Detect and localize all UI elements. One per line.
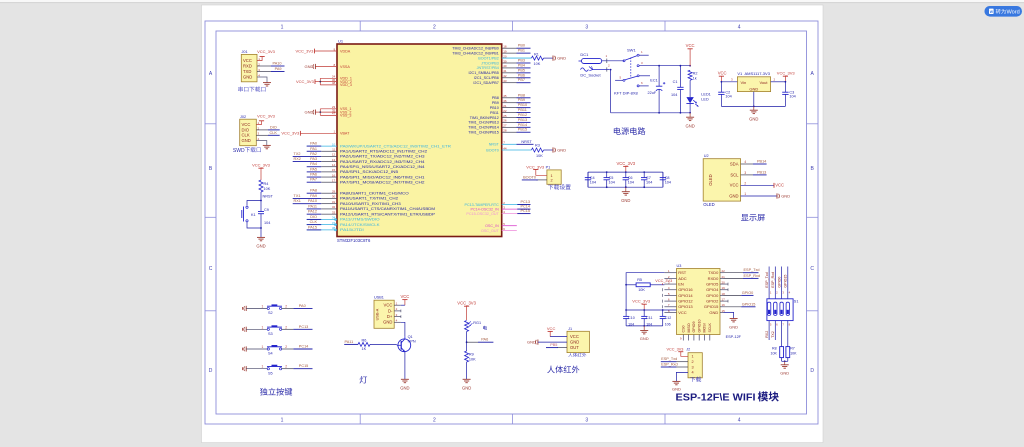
wire OLED SCL net PB13 — [741, 174, 753, 176]
svg-text:PC13: PC13 — [299, 325, 309, 329]
svg-text:PB14: PB14 — [757, 160, 766, 164]
svg-text:104: 104 — [590, 181, 596, 185]
capacitor C8 104 — [662, 172, 664, 178]
svg-text:J1: J1 — [568, 327, 572, 331]
switch link dashed — [630, 58, 632, 79]
cap ground rail — [626, 325, 663, 327]
svg-text:RXD0: RXD0 — [708, 276, 719, 281]
svg-text:PB10: PB10 — [518, 103, 527, 107]
push button S3 — [267, 328, 269, 330]
svg-text:PB3: PB3 — [518, 58, 525, 62]
svg-text:VDD_3: VDD_3 — [340, 83, 352, 87]
ground decoupling — [625, 186, 627, 188]
svg-text:ESP_Rxd: ESP_Rxd — [771, 272, 775, 288]
svg-text:PA7: PA7 — [310, 178, 317, 182]
svg-text:2: 2 — [285, 325, 287, 329]
label 人体红外 — [547, 366, 579, 374]
svg-text:GND: GND — [709, 310, 718, 315]
svg-text:D: D — [209, 368, 213, 374]
ground flag at button S3 — [245, 327, 247, 332]
label 灯 — [360, 376, 368, 384]
svg-text:10K: 10K — [790, 351, 797, 355]
svg-text:OLED: OLED — [708, 174, 713, 185]
svg-text:BOOT0: BOOT0 — [486, 148, 499, 152]
svg-text:STM32F103C8T6: STM32F103C8T6 — [337, 238, 371, 243]
svg-text:GPIO0: GPIO0 — [706, 293, 719, 298]
svg-text:TIM1_CH1N/PB13: TIM1_CH1N/PB13 — [468, 121, 499, 125]
svg-text:PB13: PB13 — [757, 170, 766, 174]
capacitor C6 104 — [625, 171, 627, 173]
svg-text:TX2: TX2 — [771, 331, 775, 338]
svg-text:2: 2 — [744, 181, 746, 185]
wire RG1 to node — [466, 332, 468, 343]
svg-text:GPIO16: GPIO16 — [678, 287, 693, 292]
switch SW1 pole B pins 4,5,6 — [623, 79, 625, 81]
capacitor C1 104 — [679, 66, 681, 88]
svg-text:VCC: VCC — [678, 310, 687, 315]
capacitor C4 104 — [587, 172, 589, 178]
capacitor C3 104 — [784, 82, 786, 92]
svg-text:R8: R8 — [772, 346, 777, 350]
wire R5 to EN with VCC_3V3 flag — [650, 284, 664, 286]
power flag VCC_3V3 at VDDA — [314, 49, 316, 54]
ground at ESP caps — [640, 330, 648, 332]
svg-text:C4: C4 — [590, 176, 595, 180]
cap rail to ESP VCC pin — [626, 309, 676, 311]
svg-text:U1: U1 — [338, 39, 344, 44]
svg-text:PA5: PA5 — [310, 167, 317, 171]
svg-text:GPIO15: GPIO15 — [784, 275, 788, 288]
svg-text:I2C1_SDA/PB7: I2C1_SDA/PB7 — [473, 81, 498, 85]
svg-text:C10: C10 — [628, 316, 635, 320]
svg-text:GND: GND — [570, 340, 579, 345]
svg-text:1: 1 — [281, 418, 284, 424]
svg-text:VCC_3V3: VCC_3V3 — [457, 301, 476, 306]
wire button to ground — [247, 222, 261, 228]
svg-text:Vout: Vout — [759, 80, 768, 85]
svg-text:PC15: PC15 — [521, 209, 531, 213]
wire ESP GPIO15 net — [724, 306, 742, 308]
svg-text:PB15: PB15 — [518, 128, 527, 132]
svg-text:GND: GND — [729, 324, 738, 329]
svg-text:2: 2 — [285, 304, 287, 308]
svg-text:VCC: VCC — [242, 122, 251, 127]
transistor Q1 NPN — [398, 339, 411, 352]
svg-text:VCC: VCC — [730, 183, 739, 188]
svg-text:3: 3 — [744, 171, 746, 175]
svg-text:C6: C6 — [628, 176, 633, 180]
svg-text:RX1: RX1 — [294, 199, 301, 203]
schematic border frame — [205, 21, 818, 424]
net PB5 wire at J1 OUT — [557, 347, 567, 349]
ground at S1 resistors — [781, 364, 789, 366]
svg-text:DIO: DIO — [242, 127, 250, 132]
svg-text:104: 104 — [725, 95, 731, 99]
resistor R5 10K — [636, 283, 650, 287]
svg-text:CLK: CLK — [270, 131, 278, 135]
svg-text:2: 2 — [433, 418, 436, 424]
wire USB GND to Q1 collector — [401, 322, 405, 336]
capacitor C11 104 — [643, 310, 645, 316]
svg-text:BOOT0: BOOT0 — [523, 175, 536, 179]
svg-text:3: 3 — [585, 418, 588, 424]
svg-text:GND: GND — [781, 194, 790, 199]
wire GND to button S5 — [246, 368, 267, 370]
svg-text:RG1: RG1 — [473, 321, 481, 325]
svg-text:ESP_Txd: ESP_Txd — [765, 272, 769, 287]
resistor R7 10K — [787, 321, 789, 347]
svg-text:PB9: PB9 — [492, 101, 499, 105]
svg-text:2: 2 — [692, 360, 694, 364]
capacitor C10 104 — [625, 310, 627, 316]
svg-text:PA9/USART1_TX/TIM1_CH2: PA9/USART1_TX/TIM1_CH2 — [340, 197, 398, 201]
svg-text:OLED: OLED — [703, 202, 714, 207]
svg-text:P1: P1 — [546, 166, 551, 170]
svg-text:PA1/USART2_RTS/ADC12_IN1/TIM2_: PA1/USART2_RTS/ADC12_IN1/TIM2_CH2 — [340, 150, 427, 154]
svg-text:4: 4 — [744, 160, 746, 164]
svg-text:OUT: OUT — [570, 345, 579, 350]
svg-text:PB8: PB8 — [518, 93, 525, 97]
svg-text:JNTRST/PB4: JNTRST/PB4 — [477, 66, 499, 70]
svg-text:104: 104 — [671, 93, 677, 97]
svg-text:PA9: PA9 — [310, 194, 317, 198]
svg-text:GND: GND — [780, 370, 789, 375]
wire to ground — [260, 227, 262, 229]
svg-text:4: 4 — [692, 371, 694, 375]
svg-text:GND: GND — [527, 340, 536, 345]
svg-text:NRST: NRST — [263, 195, 274, 199]
svg-text:AMS1117-3V3: AMS1117-3V3 — [745, 71, 771, 76]
svg-text:NRST: NRST — [489, 143, 500, 147]
svg-text:PC14: PC14 — [521, 205, 531, 209]
svg-text:PB11: PB11 — [518, 108, 527, 112]
svg-text:PB0: PB0 — [518, 44, 525, 48]
svg-text:C9: C9 — [264, 208, 269, 212]
svg-text:CLK: CLK — [310, 220, 318, 224]
no-connect stubs GPIO16 GPIO14 GPIO12 GPIO13 — [662, 288, 664, 291]
svg-text:1: 1 — [281, 25, 284, 31]
svg-text:PB13: PB13 — [518, 118, 527, 122]
svg-text:NPN: NPN — [408, 340, 416, 344]
wire switch pin3 to top rail — [639, 65, 690, 67]
ground reset circuit — [257, 236, 265, 238]
svg-text:10K: 10K — [264, 187, 271, 191]
svg-text:R7: R7 — [790, 346, 795, 350]
label 下载设置 — [548, 184, 571, 189]
svg-text:GND: GND — [749, 116, 758, 121]
svg-text:PC14-OSC32_IN: PC14-OSC32_IN — [471, 207, 500, 211]
svg-text:J01: J01 — [242, 50, 248, 54]
svg-text:VCC_3V3: VCC_3V3 — [667, 347, 684, 351]
svg-text:TX1: TX1 — [294, 194, 301, 198]
svg-text:104: 104 — [789, 95, 795, 99]
wire J02 GND to ground — [256, 141, 267, 146]
svg-text:GND: GND — [749, 87, 758, 92]
svg-text:GPIO4: GPIO4 — [706, 287, 719, 292]
svg-text:ESP_Txd: ESP_Txd — [661, 357, 677, 361]
svg-text:SWD: SWD — [233, 148, 245, 154]
ground flag at button S2 — [245, 306, 247, 311]
ground flag at R1 — [552, 56, 554, 61]
svg-text:DC_Socket: DC_Socket — [580, 73, 601, 78]
capacitor C12 106 — [662, 310, 664, 316]
svg-text:VCC: VCC — [570, 334, 579, 339]
svg-text:104: 104 — [628, 181, 634, 185]
ground at J2 — [672, 380, 680, 382]
svg-text:D-: D- — [388, 308, 393, 313]
resistor R9 10K — [466, 342, 468, 351]
top rail junctions — [658, 65, 660, 67]
svg-text:R5: R5 — [637, 278, 642, 282]
svg-text:VCC_3V3: VCC_3V3 — [632, 299, 651, 304]
svg-text:106: 106 — [665, 322, 671, 326]
wire ESP GND to ground — [724, 312, 734, 318]
svg-text:S3: S3 — [268, 332, 273, 336]
regulator ground rail — [721, 105, 785, 107]
resistor R2 1k — [688, 70, 692, 80]
svg-text:PA0/WKUP/USART2_CTS/ADC12_IN0/: PA0/WKUP/USART2_CTS/ADC12_IN0/TIM2_CH1_E… — [340, 144, 451, 148]
ground at photoresistor — [463, 378, 471, 380]
node junction reset — [260, 200, 262, 202]
svg-text:PB6: PB6 — [518, 73, 525, 77]
svg-text:GND: GND — [305, 64, 314, 69]
svg-text:GND: GND — [557, 56, 566, 61]
svg-text:GPIO0: GPIO0 — [778, 277, 782, 288]
svg-text:PC13: PC13 — [521, 200, 531, 204]
svg-text:VCC_3V3: VCC_3V3 — [257, 113, 276, 118]
svg-text:GND: GND — [383, 320, 392, 325]
svg-text:3: 3 — [692, 365, 694, 369]
svg-text:MOSI: MOSI — [703, 323, 707, 332]
svg-text:MISO: MISO — [687, 323, 691, 332]
wire ESP TXD0 net ESP_Txd — [724, 272, 744, 274]
electrolytic capacitor EC1 22uF — [658, 66, 660, 87]
svg-text:S4: S4 — [268, 352, 273, 356]
svg-text:1K: 1K — [362, 347, 367, 351]
svg-text:PB9: PB9 — [518, 98, 525, 102]
svg-text:U3: U3 — [677, 264, 682, 268]
svg-text:D: D — [810, 368, 814, 374]
svg-text:1: 1 — [551, 174, 553, 178]
svg-text:TIM1_BKIN/PB12: TIM1_BKIN/PB12 — [470, 116, 499, 120]
svg-text:SCLK: SCLK — [708, 323, 712, 333]
power flag VCC_3V3 at VBAT — [299, 131, 301, 136]
net PA6 wire — [467, 341, 478, 343]
LED1 blue LED — [686, 97, 693, 103]
svg-text:PB11: PB11 — [490, 111, 499, 115]
svg-text:KFT DIP-8X8: KFT DIP-8X8 — [614, 90, 638, 95]
svg-text:GND: GND — [640, 336, 649, 341]
wires ESP EN wire down — [625, 285, 627, 310]
svg-text:VCC_3V3: VCC_3V3 — [296, 48, 315, 53]
svg-text:RXD: RXD — [243, 63, 252, 68]
svg-text:USB-A: USB-A — [376, 308, 380, 320]
svg-text:EN: EN — [678, 281, 684, 286]
svg-text:PA3/USART2_RX/ADC12_IN3/TIM2_C: PA3/USART2_RX/ADC12_IN3/TIM2_CH4 — [340, 160, 425, 164]
svg-text:PA11: PA11 — [345, 340, 354, 344]
svg-text:PB5: PB5 — [518, 68, 525, 72]
resistor R1 10K — [532, 56, 544, 60]
svg-text:PA10: PA10 — [308, 199, 317, 203]
svg-text:10K: 10K — [534, 62, 541, 66]
push button S5 — [267, 368, 269, 370]
svg-text:VCC_3V3: VCC_3V3 — [655, 279, 672, 283]
svg-text:PB1: PB1 — [518, 49, 525, 53]
svg-text:ESP-12F\E WIFI: ESP-12F\E WIFI — [676, 392, 756, 404]
svg-text:10K: 10K — [536, 154, 543, 158]
svg-text:22uF: 22uF — [648, 91, 657, 95]
photoresistor RG1 — [465, 321, 469, 332]
svg-text:PC15-OSC32_OUT: PC15-OSC32_OUT — [466, 212, 499, 216]
wire Q1 emitter to ground — [404, 352, 406, 380]
resistor R8 10K — [781, 321, 783, 347]
wire resistors to ground — [781, 358, 783, 362]
svg-text:VCC_3V3: VCC_3V3 — [252, 163, 271, 168]
wire button S4 to net PC14 — [282, 348, 294, 350]
svg-text:PA4: PA4 — [310, 162, 317, 166]
svg-text:ADC: ADC — [678, 276, 687, 281]
svg-text:ESP-12F: ESP-12F — [726, 335, 742, 339]
svg-text:PC15: PC15 — [299, 364, 309, 368]
svg-text:VSSA: VSSA — [340, 65, 350, 69]
svg-text:Q1: Q1 — [408, 335, 413, 339]
label 电源电路 — [614, 127, 646, 135]
svg-text:TIM3_CH4/ADC12_IN9/PB1: TIM3_CH4/ADC12_IN9/PB1 — [452, 51, 499, 55]
capacitor C2 104 — [720, 82, 722, 92]
svg-text:VCC: VCC — [547, 326, 556, 331]
svg-text:V1: V1 — [737, 71, 743, 76]
capacitor C9 104 — [260, 201, 262, 212]
svg-text:RST: RST — [678, 270, 687, 275]
svg-text:VCC: VCC — [400, 294, 409, 299]
ground flag at R3 — [552, 147, 554, 152]
net BOOT0 to P1 pin2 — [536, 179, 547, 181]
svg-text:U2: U2 — [704, 154, 709, 158]
svg-text:C11: C11 — [646, 316, 652, 320]
svg-text:R6: R6 — [362, 338, 367, 342]
svg-text:R2: R2 — [693, 71, 698, 75]
svg-text:VCC_3V3: VCC_3V3 — [777, 71, 796, 76]
svg-text:2: 2 — [285, 365, 287, 369]
svg-text:S5: S5 — [268, 371, 273, 375]
wire J02 DIO net — [256, 129, 268, 131]
svg-text:VCC_3V3: VCC_3V3 — [296, 79, 315, 84]
svg-text:PA15: PA15 — [308, 225, 317, 229]
svg-text:PC13-TAMPER-RTC: PC13-TAMPER-RTC — [465, 203, 500, 207]
wire Vout to VCC_3V3 — [771, 81, 786, 83]
wire to button K1 — [247, 201, 261, 206]
svg-text:R1: R1 — [534, 52, 539, 56]
svg-text:C: C — [209, 266, 213, 272]
svg-text:1: 1 — [262, 304, 264, 308]
svg-text:GND: GND — [685, 123, 694, 128]
svg-text:GND: GND — [462, 386, 471, 391]
svg-text:VCC_3V3: VCC_3V3 — [526, 164, 545, 169]
ground at Q1 — [401, 378, 409, 380]
svg-text:PB8: PB8 — [492, 96, 499, 100]
svg-text:PB7: PB7 — [518, 78, 525, 82]
wire J02 VCC to VCC_3V3 — [256, 121, 261, 125]
wire button S5 to net PC15 — [282, 368, 294, 370]
svg-text:GPIO2: GPIO2 — [706, 299, 719, 304]
svg-text:C7: C7 — [646, 176, 651, 180]
svg-text:2: 2 — [551, 179, 553, 183]
svg-text:NRST: NRST — [521, 140, 532, 144]
svg-text:GPIO15: GPIO15 — [704, 304, 719, 309]
wire VCC_3V3 to P1 pin1 — [533, 169, 538, 171]
svg-text:104: 104 — [665, 181, 671, 185]
svg-text:TXD0: TXD0 — [708, 270, 719, 275]
svg-text:S1: S1 — [794, 299, 799, 303]
svg-text:GND: GND — [557, 148, 566, 153]
connector J01 (serial download) — [241, 54, 257, 81]
svg-text:PA9: PA9 — [275, 67, 282, 71]
svg-text:GND: GND — [621, 198, 630, 203]
svg-text:PA7/SPI1_MOSI/ADC12_IN7/TIM3_C: PA7/SPI1_MOSI/ADC12_IN7/TIM3_CH2 — [340, 180, 425, 184]
bottom power rail — [611, 112, 691, 114]
wire button S3 to net PC13 — [282, 328, 294, 330]
label 下载 — [690, 377, 701, 382]
wire GND to button S3 — [246, 328, 267, 330]
svg-text:PA12/USART1_RTS/CANTX/TIM1_ETR: PA12/USART1_RTS/CANTX/TIM1_ETR/USBDP — [340, 212, 436, 216]
svg-text:GPIO12: GPIO12 — [678, 299, 693, 304]
resistor R4 10K — [259, 180, 263, 192]
svg-text:DIO: DIO — [270, 125, 277, 129]
svg-text:I2C1_SCL/PB6: I2C1_SCL/PB6 — [474, 76, 499, 80]
net ESP_Rxd to J2 pin3 — [676, 366, 688, 368]
svg-text:1: 1 — [744, 192, 746, 196]
svg-text:VCC: VCC — [775, 183, 784, 188]
svg-text:R9: R9 — [469, 352, 474, 356]
svg-text:PA2/USART2_TX/ADC12_IN2/TIM2_C: PA2/USART2_TX/ADC12_IN2/TIM2_CH3 — [340, 155, 425, 159]
svg-text:GND: GND — [242, 138, 251, 143]
svg-text:C8: C8 — [665, 176, 670, 180]
svg-text:VCC_3V3: VCC_3V3 — [257, 49, 276, 54]
push button S2 — [267, 307, 269, 309]
svg-text:VCC_3V3: VCC_3V3 — [616, 161, 635, 166]
wire OLED VCC flag — [741, 184, 774, 186]
svg-text:USB1: USB1 — [374, 295, 384, 299]
svg-text:PA6: PA6 — [481, 338, 488, 342]
svg-text:C12: C12 — [665, 316, 672, 320]
svg-text:PA11: PA11 — [308, 204, 317, 208]
svg-text:R4: R4 — [264, 182, 269, 186]
wire OLED SDA net PB14 — [741, 163, 753, 165]
svg-text:DIO: DIO — [310, 215, 317, 219]
DIP switch S1 body — [767, 299, 793, 321]
svg-text:GPIO15: GPIO15 — [742, 302, 756, 306]
svg-text:GPIO13: GPIO13 — [678, 304, 693, 309]
connector J02 (SWD download) — [240, 119, 257, 146]
wire ESP GPIO0 net — [724, 294, 742, 296]
svg-text:VCC_3V3: VCC_3V3 — [281, 131, 300, 136]
svg-text:BOOT1/PB2: BOOT1/PB2 — [478, 56, 499, 60]
svg-text:TIM3_CH3/ADC12_IN8/PB0: TIM3_CH3/ADC12_IN8/PB0 — [452, 47, 499, 51]
svg-text:4: 4 — [738, 418, 741, 424]
svg-text:C: C — [810, 266, 814, 272]
wire J02 CLK net — [256, 134, 268, 136]
svg-text:EC1: EC1 — [650, 78, 657, 82]
svg-text:DC1: DC1 — [580, 52, 589, 57]
svg-text:GND: GND — [305, 110, 314, 115]
net ESP_Txd to J2 pin2 — [676, 361, 688, 363]
svg-text:PA12: PA12 — [308, 210, 317, 214]
svg-text:GPIO5: GPIO5 — [706, 281, 719, 286]
ground power circuit — [689, 113, 691, 117]
resistor R3 10K — [532, 148, 544, 152]
svg-text:GND: GND — [243, 74, 252, 79]
svg-text:CS0: CS0 — [682, 326, 686, 333]
